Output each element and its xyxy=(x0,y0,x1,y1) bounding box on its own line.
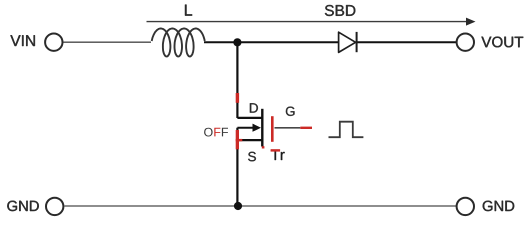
red tip at channel bar bottom xyxy=(262,146,265,148)
label L xyxy=(185,5,192,16)
MOSFET Tr drain lead xyxy=(237,117,262,119)
label S xyxy=(248,152,256,162)
label GND left xyxy=(7,201,39,211)
MOSFET Tr channel bar xyxy=(261,109,263,147)
wire source down to bottom rail xyxy=(236,140,238,206)
gate lead black part xyxy=(275,127,301,129)
diode SBD cathode bar xyxy=(356,32,358,52)
wire node A to diode xyxy=(237,41,338,43)
wire node A down to drain xyxy=(236,42,238,118)
diode SBD anode triangle xyxy=(339,32,356,52)
terminal GND left xyxy=(46,198,63,215)
red marker on drain wire xyxy=(236,93,239,103)
terminal VOUT xyxy=(457,34,474,51)
label Tr xyxy=(271,150,285,160)
node A junction dot xyxy=(233,38,241,46)
terminal VIN xyxy=(45,34,62,51)
bottom junction dot xyxy=(234,202,242,210)
label VOUT xyxy=(481,37,523,48)
gate lead red part xyxy=(300,127,312,129)
bottom rail wire xyxy=(65,205,457,207)
wire L to node A xyxy=(204,41,237,43)
wire VIN to L xyxy=(64,41,152,43)
MOSFET Tr gate bar (red) xyxy=(271,116,274,142)
wire diode to VOUT xyxy=(358,41,457,43)
label O of OFF xyxy=(204,128,213,137)
label G xyxy=(286,107,295,116)
terminal GND right xyxy=(457,198,474,215)
wire body arrow to source corner xyxy=(236,128,238,140)
red bar over T of Tr xyxy=(271,149,281,151)
MOSFET Tr source lead xyxy=(237,139,262,141)
current-direction arrow xyxy=(147,18,476,26)
label GND right xyxy=(483,201,515,211)
label F2 of OFF xyxy=(222,128,228,137)
MOSFET Tr body arrow xyxy=(237,124,261,132)
label D xyxy=(250,103,258,112)
label SBD xyxy=(325,5,355,16)
gate pulse waveform xyxy=(329,122,364,138)
red marker corner stub on source lead xyxy=(236,139,243,141)
red marker on source wire xyxy=(236,130,239,149)
label VIN xyxy=(10,35,35,46)
label F1 of OFF (red) xyxy=(214,128,220,137)
inductor L xyxy=(152,29,205,57)
